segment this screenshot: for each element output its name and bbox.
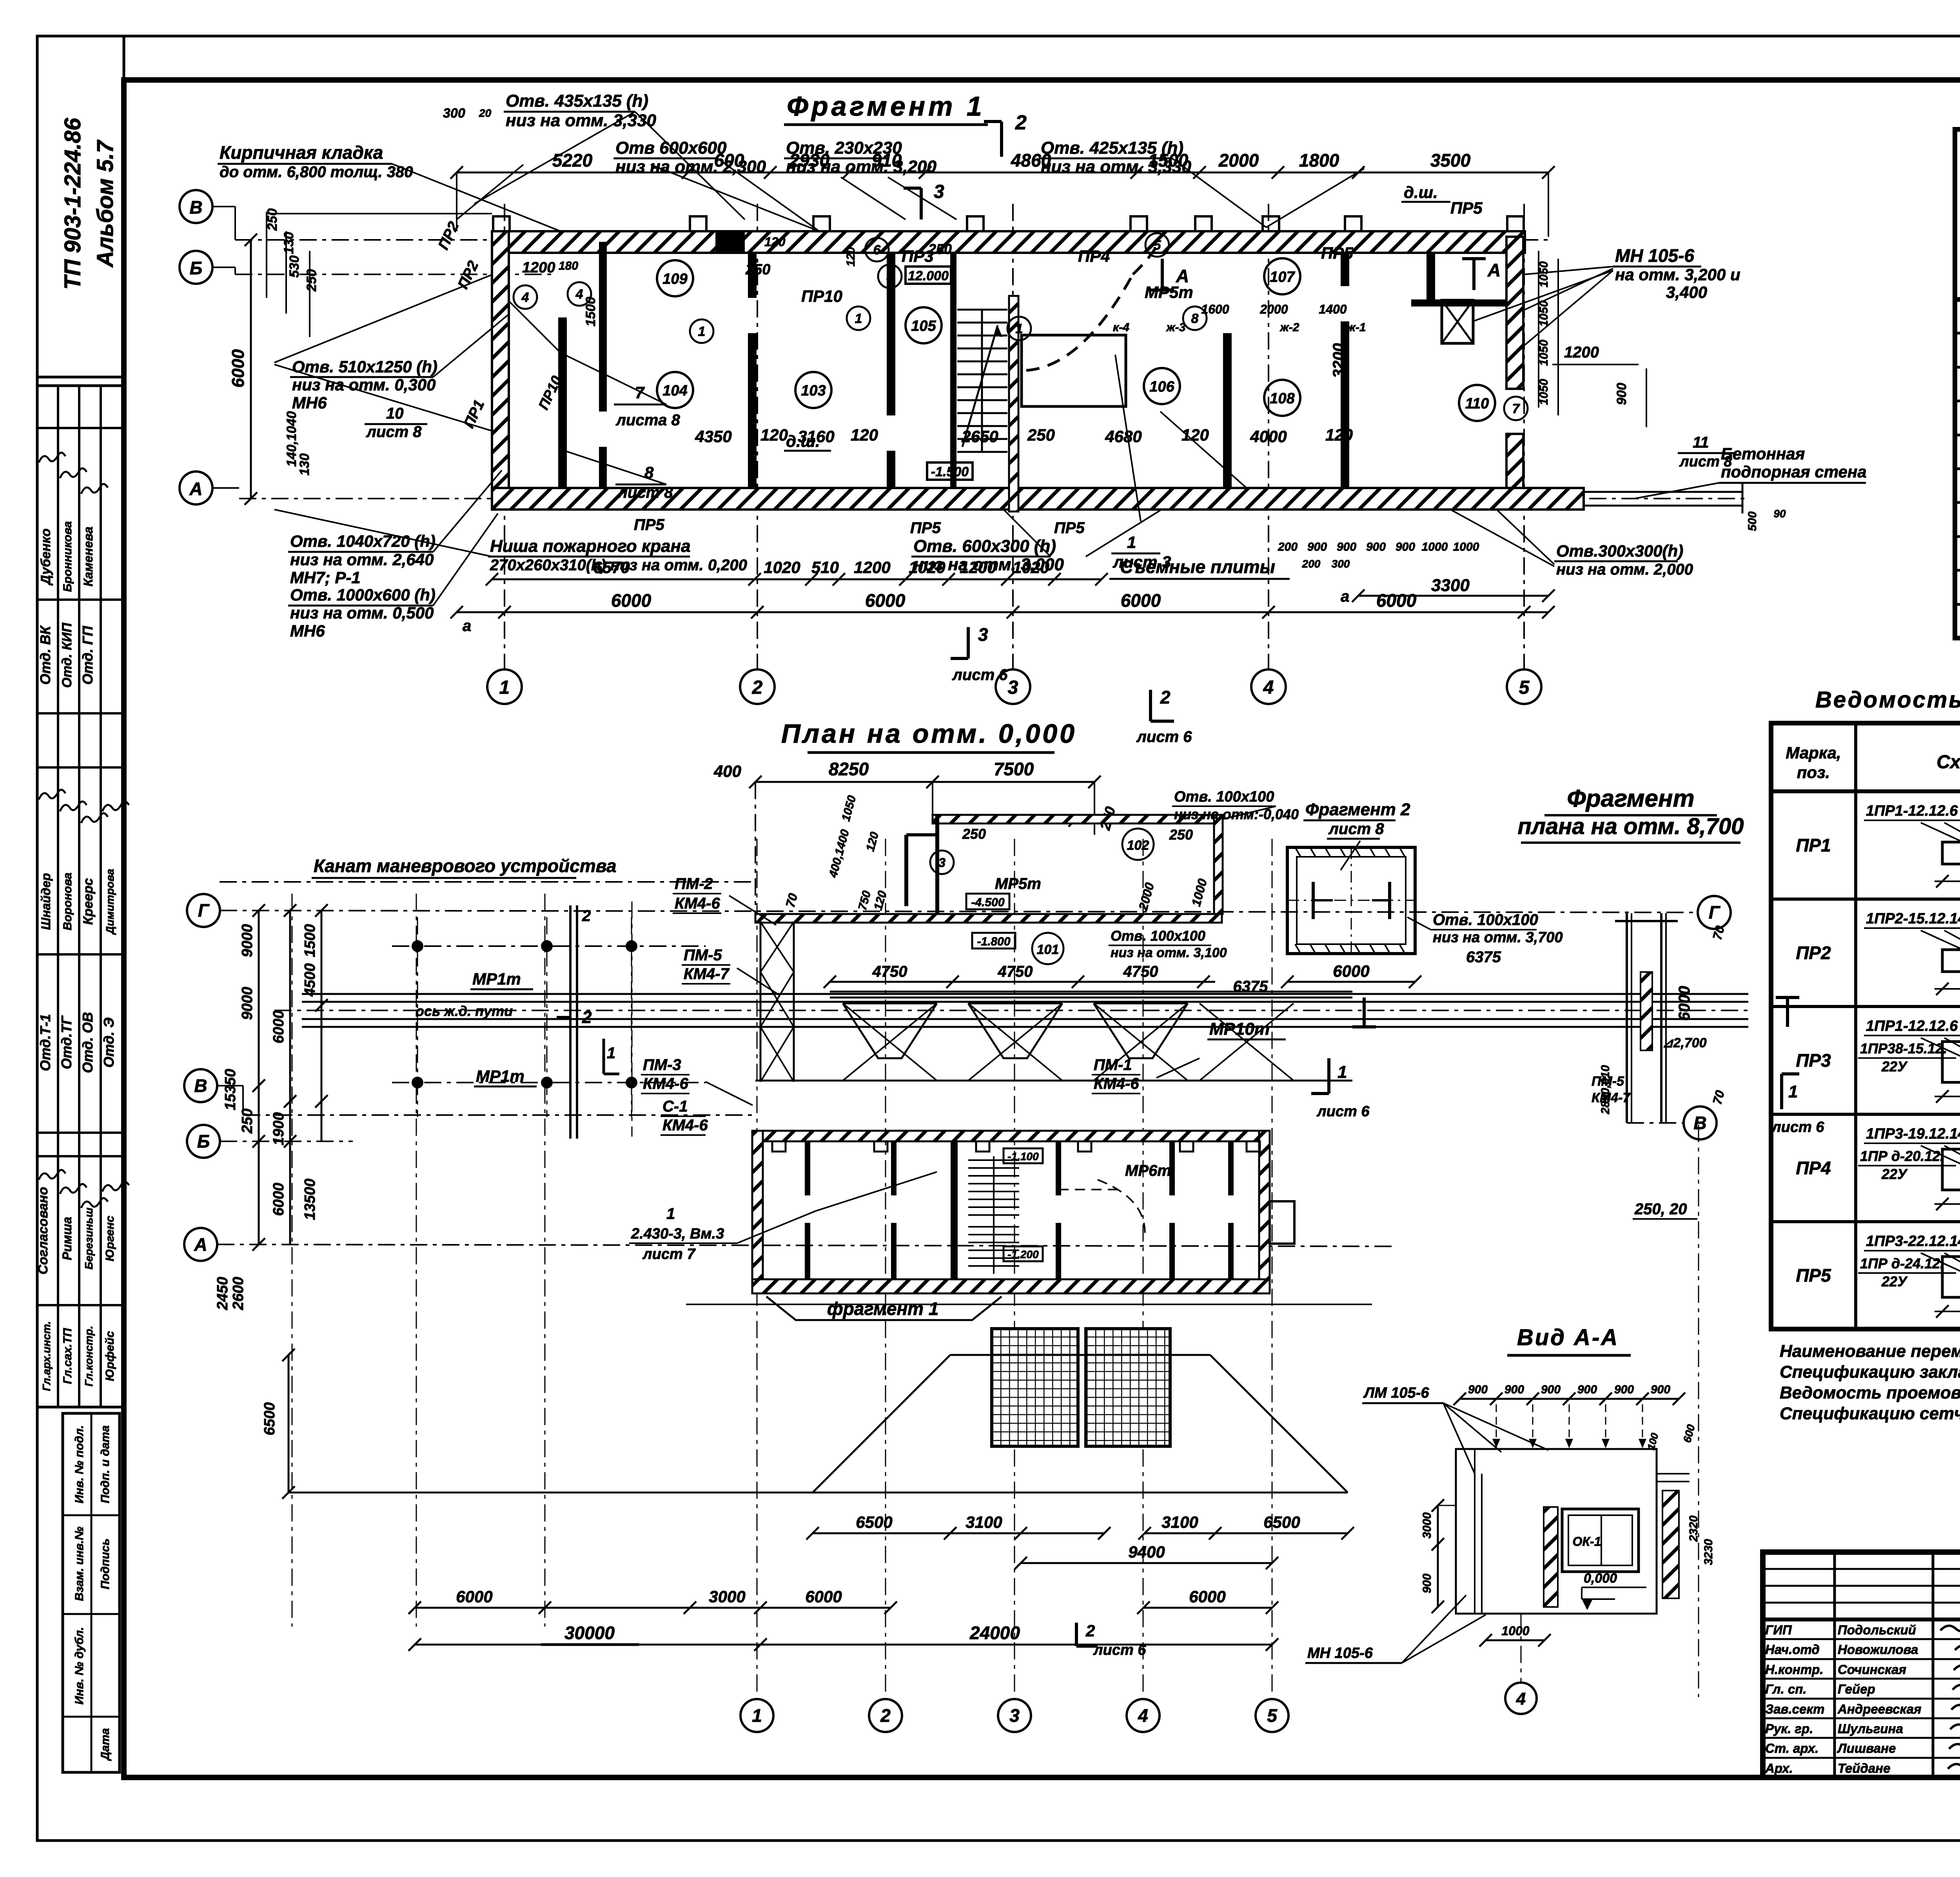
- svg-text:ж-3: ж-3: [1166, 321, 1186, 334]
- svg-text:Марка,: Марка,: [1786, 744, 1841, 762]
- svg-text:3: 3: [934, 181, 944, 202]
- svg-text:Рук. гр.: Рук. гр.: [1765, 1721, 1813, 1736]
- svg-text:4500: 4500: [302, 963, 318, 997]
- svg-text:250: 250: [745, 261, 770, 278]
- svg-text:1ПР3-22.12.14: 1ПР3-22.12.14: [1866, 1233, 1960, 1250]
- svg-text:Зав.сект: Зав.сект: [1765, 1702, 1824, 1716]
- svg-text:4: 4: [1138, 1705, 1148, 1726]
- svg-text:Отд. ВК: Отд. ВК: [37, 625, 53, 685]
- svg-text:1200: 1200: [522, 259, 555, 276]
- svg-text:900: 900: [1421, 1574, 1434, 1593]
- svg-text:ЛМ 105-6: ЛМ 105-6: [1363, 1385, 1429, 1401]
- svg-text:Шнайдер: Шнайдер: [39, 873, 53, 930]
- svg-text:400: 400: [713, 762, 741, 780]
- svg-text:3: 3: [1008, 677, 1018, 698]
- explication table: [1955, 129, 1960, 640]
- svg-text:1200: 1200: [854, 558, 890, 577]
- svg-text:1: 1: [752, 1705, 762, 1726]
- svg-text:6000: 6000: [1333, 962, 1369, 980]
- svg-text:Отд.Т-1: Отд.Т-1: [37, 1014, 53, 1071]
- winch labels ПМ-2 etc: [604, 875, 1200, 1135]
- svg-text:2: 2: [582, 1008, 592, 1027]
- svg-text:Отв 600х600: Отв 600х600: [615, 138, 727, 158]
- svg-text:250: 250: [1027, 426, 1055, 444]
- svg-text:Отв. 435х135 (h): Отв. 435х135 (h): [506, 91, 648, 111]
- section mark 2 top: [984, 111, 1027, 157]
- svg-text:4350: 4350: [695, 427, 731, 446]
- svg-text:1: 1: [666, 1205, 675, 1222]
- svg-text:низ на отм. 3,330: низ на отм. 3,330: [1041, 157, 1191, 176]
- svg-text:2: 2: [582, 907, 591, 925]
- plan axis letter circles left: [184, 894, 220, 1261]
- svg-text:Фрагмент 1: Фрагмент 1: [787, 91, 985, 122]
- svg-text:2890,910: 2890,910: [1599, 1065, 1612, 1114]
- svg-text:низ на отм:-0,040: низ на отм:-0,040: [1174, 806, 1299, 822]
- plan axis В line: [217, 1086, 757, 1115]
- svg-text:поз.: поз.: [1797, 763, 1830, 782]
- svg-text:7500: 7500: [994, 759, 1034, 779]
- svg-text:низ на отм. 2,000: низ на отм. 2,000: [1556, 561, 1693, 578]
- lower building pilasters: [772, 1141, 1260, 1152]
- svg-text:ПР4: ПР4: [1796, 1158, 1831, 1178]
- svg-text:110: 110: [1465, 395, 1489, 412]
- svg-text:МР5т: МР5т: [995, 875, 1041, 892]
- svg-text:Шульгина: Шульгина: [1838, 1721, 1903, 1736]
- svg-text:на отм. 3,200 и: на отм. 3,200 и: [1615, 265, 1740, 284]
- svg-text:1600: 1600: [1201, 302, 1229, 316]
- svg-text:1500: 1500: [302, 924, 318, 958]
- svg-text:2320: 2320: [1687, 1515, 1700, 1542]
- svg-text:А: А: [1176, 266, 1189, 286]
- svg-text:104: 104: [662, 383, 687, 399]
- svg-text:180: 180: [559, 259, 578, 272]
- svg-text:8250: 8250: [829, 759, 869, 779]
- top wall hatched band: [492, 231, 1525, 253]
- svg-text:лист 6: лист 6: [1771, 1119, 1824, 1135]
- plan left vertical dims: [214, 904, 328, 1435]
- svg-text:В: В: [1693, 1113, 1706, 1133]
- svg-text:⊿2,700: ⊿2,700: [1662, 1036, 1707, 1050]
- svg-text:Тейдане: Тейдане: [1838, 1761, 1890, 1775]
- rail lines: [274, 970, 1748, 1086]
- svg-text:ПР5: ПР5: [1450, 199, 1483, 217]
- svg-text:1: 1: [607, 1045, 615, 1062]
- section flag 2 bottom plan: [1076, 1621, 1146, 1658]
- svg-text:Б: Б: [190, 258, 203, 278]
- plan axis Б line: [220, 1141, 353, 1142]
- svg-text:11: 11: [1693, 434, 1709, 451]
- svg-text:2000: 2000: [1218, 150, 1259, 170]
- plan axis А line: [217, 1244, 1396, 1246]
- conveyor trusses with funnels: [755, 963, 1352, 1081]
- svg-text:900: 900: [1337, 540, 1356, 553]
- svg-text:Ведомость проемов ворот и двер: Ведомость проемов ворот и дверей см. лис…: [1780, 1383, 1960, 1402]
- hopper top wall: [933, 815, 1223, 823]
- svg-text:лист 8: лист 8: [366, 423, 422, 441]
- svg-text:6: 6: [873, 243, 881, 258]
- svg-text:250: 250: [928, 241, 952, 257]
- svg-text:6000: 6000: [1189, 1587, 1225, 1606]
- svg-text:1900: 1900: [270, 1112, 287, 1146]
- fragment 2 box: [1287, 847, 1415, 954]
- left strip signature table: [36, 386, 129, 1407]
- axis column lines 1-5: [505, 204, 1524, 668]
- svg-text:а: а: [1341, 588, 1349, 605]
- svg-text:200: 200: [1278, 540, 1298, 553]
- svg-text:1500: 1500: [583, 297, 598, 326]
- svg-text:5: 5: [1154, 238, 1161, 253]
- svg-text:Бронникова: Бронникова: [61, 521, 74, 592]
- svg-text:6500: 6500: [856, 1513, 892, 1531]
- svg-text:к-4: к-4: [1113, 321, 1129, 334]
- svg-text:2650: 2650: [961, 427, 998, 446]
- right wall lower: [1506, 434, 1523, 497]
- svg-text:4750: 4750: [872, 963, 907, 980]
- svg-text:13500: 13500: [302, 1179, 318, 1220]
- svg-text:900: 900: [1577, 1383, 1597, 1396]
- axis line В: [235, 239, 1548, 241]
- bottom wall hatched band: [492, 488, 1584, 510]
- svg-text:6000: 6000: [456, 1587, 492, 1606]
- svg-text:6000: 6000: [865, 590, 906, 611]
- svg-text:МН6: МН6: [292, 394, 327, 412]
- svg-text:900: 900: [1504, 1383, 1524, 1396]
- svg-text:Отд. ОВ: Отд. ОВ: [80, 1012, 96, 1073]
- svg-text:1200: 1200: [960, 558, 996, 577]
- gallery trapezoid: [282, 1349, 1348, 1499]
- svg-text:МН6: МН6: [290, 622, 325, 640]
- svg-text:4750: 4750: [1123, 963, 1158, 980]
- svg-text:8: 8: [1191, 311, 1199, 326]
- svg-text:Отв. 100х100: Отв. 100х100: [1433, 911, 1538, 929]
- svg-text:Нач.отд: Нач.отд: [1765, 1642, 1820, 1657]
- svg-text:МН 105-6: МН 105-6: [1307, 1645, 1373, 1661]
- section mark 3: [904, 181, 944, 219]
- svg-text:Отв. 100х100: Отв. 100х100: [1174, 789, 1274, 805]
- svg-text:ПМ-5: ПМ-5: [684, 947, 722, 964]
- svg-text:Отв. 510х1250 (h): Отв. 510х1250 (h): [292, 357, 437, 376]
- svg-text:6000: 6000: [611, 590, 652, 611]
- svg-text:900: 900: [1396, 540, 1415, 553]
- svg-text:250: 250: [962, 826, 986, 842]
- lintel ПР3: [1796, 1018, 1960, 1103]
- svg-text:2450: 2450: [214, 1277, 231, 1311]
- svg-text:Отв.300х300(h): Отв.300х300(h): [1556, 542, 1683, 560]
- right side callouts МН 105-6: [1525, 245, 1740, 345]
- plan bottom axis circles: [740, 1699, 1289, 1732]
- svg-text:9400: 9400: [1128, 1543, 1165, 1561]
- rail support columns (dots): [392, 917, 706, 1117]
- svg-text:Бетонная: Бетонная: [1721, 444, 1805, 463]
- dim row under plan: [486, 557, 1555, 605]
- left strip stamp box: [37, 36, 124, 377]
- lower building walls: [752, 1131, 1294, 1293]
- svg-text:Спецификацию сетчатых перегоро: Спецификацию сетчатых перегородок см. ли…: [1780, 1404, 1960, 1423]
- svg-text:1: 1: [1127, 533, 1136, 551]
- notes under tables: [1780, 1342, 1960, 1423]
- svg-text:фрагмент 1: фрагмент 1: [827, 1298, 938, 1319]
- svg-text:9000: 9000: [239, 987, 256, 1020]
- svg-text:Взам. инв.№: Взам. инв.№: [73, 1527, 86, 1601]
- svg-text:Отд. КИП: Отд. КИП: [60, 622, 74, 687]
- svg-text:130: 130: [281, 232, 296, 254]
- svg-text:30000: 30000: [564, 1623, 615, 1643]
- svg-text:низ на отм. 0,500: низ на отм. 0,500: [290, 604, 434, 622]
- svg-text:22У: 22У: [1881, 1059, 1908, 1075]
- svg-text:250, 20: 250, 20: [1634, 1201, 1687, 1218]
- kirpichnaya kladka callout: [218, 142, 561, 231]
- svg-text:КМ4-6: КМ4-6: [1094, 1075, 1139, 1092]
- svg-text:2: 2: [880, 1705, 891, 1726]
- svg-text:130: 130: [297, 453, 312, 476]
- svg-text:ПМ-3: ПМ-3: [643, 1056, 681, 1074]
- svg-text:С-1: С-1: [662, 1098, 688, 1115]
- svg-text:6570: 6570: [593, 558, 630, 577]
- svg-text:Отв. 1040х720 (h): Отв. 1040х720 (h): [290, 532, 436, 550]
- svg-text:ГИП: ГИП: [1765, 1623, 1792, 1637]
- svg-text:4000: 4000: [1250, 427, 1287, 446]
- misc leader lines fragment 1: [274, 112, 1613, 564]
- retaining wall extension right: [1584, 482, 1742, 513]
- svg-text:Гл.сах.ТП: Гл.сах.ТП: [61, 1328, 74, 1384]
- left wall: [492, 231, 509, 510]
- svg-text:-4.500: -4.500: [971, 896, 1004, 909]
- svg-text:Спецификацию закладных элемент: Спецификацию закладных элементов МН105-6…: [1780, 1362, 1960, 1382]
- fragment plana title: [1517, 785, 1744, 843]
- equipment МР5т: [1022, 241, 1193, 521]
- svg-text:А: А: [189, 479, 202, 499]
- svg-text:3230: 3230: [1702, 1539, 1715, 1565]
- svg-text:ПР4: ПР4: [1078, 247, 1110, 265]
- svg-text:1800: 1800: [1299, 150, 1339, 170]
- svg-text:3: 3: [938, 856, 946, 870]
- view A-A title: [1507, 1325, 1631, 1355]
- lower building top wall: [752, 1131, 1270, 1141]
- interior partition walls: [558, 242, 1506, 488]
- left small dims rotated: [265, 209, 492, 476]
- svg-text:3500: 3500: [1430, 150, 1471, 170]
- svg-text:МР6т: МР6т: [1125, 1162, 1171, 1179]
- svg-text:2000: 2000: [1259, 302, 1288, 316]
- svg-text:Инв. № подл.: Инв. № подл.: [73, 1425, 86, 1503]
- svg-text:Подпись: Подпись: [99, 1538, 112, 1589]
- svg-text:500: 500: [1746, 511, 1759, 531]
- lintel ПР4: [1796, 1126, 1960, 1210]
- svg-text:4680: 4680: [1105, 427, 1142, 446]
- svg-text:101: 101: [1037, 942, 1059, 957]
- svg-text:900: 900: [1468, 1383, 1488, 1396]
- svg-text:Б: Б: [197, 1131, 210, 1152]
- svg-text:6500: 6500: [1263, 1513, 1300, 1531]
- staircase: [957, 310, 1007, 452]
- svg-text:6000: 6000: [1676, 986, 1693, 1021]
- svg-text:лист 6: лист 6: [1136, 728, 1192, 745]
- svg-text:3160: 3160: [798, 427, 834, 446]
- svg-text:-1.100: -1.100: [1007, 1150, 1039, 1162]
- svg-text:1020: 1020: [764, 558, 800, 577]
- plan title: [781, 719, 1077, 753]
- svg-text:300: 300: [443, 106, 465, 121]
- svg-text:20: 20: [479, 107, 492, 119]
- svg-text:Наименование перемычек в скобк: Наименование перемычек в скобках дано дл…: [1780, 1342, 1960, 1361]
- svg-text:МР1т: МР1т: [472, 970, 521, 988]
- svg-text:15350: 15350: [222, 1069, 239, 1110]
- svg-text:4750: 4750: [998, 963, 1033, 980]
- svg-text:Канат маневрового устройства: Канат маневрового устройства: [314, 856, 617, 876]
- svg-text:ТП 903-1-224.86: ТП 903-1-224.86: [60, 118, 85, 290]
- svg-text:0,000: 0,000: [1584, 1571, 1617, 1586]
- svg-text:2: 2: [1160, 687, 1171, 707]
- svg-text:6000: 6000: [1376, 590, 1417, 611]
- svg-text:250: 250: [239, 1108, 256, 1133]
- svg-text:900: 900: [1307, 540, 1327, 553]
- svg-text:Отд. Э: Отд. Э: [101, 1017, 117, 1068]
- svg-text:2: 2: [1015, 111, 1027, 134]
- svg-text:1: 1: [499, 677, 510, 698]
- svg-text:КМ4-6: КМ4-6: [675, 895, 720, 912]
- braced tower: [760, 922, 794, 1082]
- svg-text:В: В: [194, 1075, 207, 1096]
- svg-text:лист 6: лист 6: [1093, 1642, 1146, 1658]
- svg-text:низ на отм. 2,300: низ на отм. 2,300: [615, 157, 766, 176]
- svg-text:9: 9: [886, 269, 894, 284]
- section mark 2 bottom: [1136, 687, 1192, 745]
- svg-text:120: 120: [1325, 426, 1353, 444]
- svg-text:ПР5: ПР5: [1054, 519, 1085, 537]
- section flags 1 list 6: [1311, 997, 1824, 1135]
- svg-text:9000: 9000: [239, 924, 256, 958]
- room number circles: [657, 258, 1495, 421]
- lintel ПР2: [1796, 910, 1960, 995]
- svg-text:1400: 1400: [1319, 302, 1347, 316]
- svg-text:3300: 3300: [1431, 576, 1470, 595]
- svg-text:10: 10: [386, 405, 404, 422]
- interior dim texts: [695, 235, 1366, 446]
- svg-text:3,400: 3,400: [1666, 283, 1707, 301]
- svg-text:4: 4: [1516, 1689, 1526, 1708]
- svg-text:низ на отм. 2,640: низ на отм. 2,640: [290, 550, 434, 569]
- svg-text:3100: 3100: [1161, 1513, 1198, 1531]
- svg-text:лист 8: лист 8: [1328, 820, 1384, 838]
- svg-text:Съемные плиты: Съемные плиты: [1120, 557, 1275, 577]
- svg-text:1020: 1020: [909, 558, 945, 577]
- svg-text:Димитрова: Димитрова: [104, 869, 116, 935]
- svg-text:Ведомость перемычек: Ведомость перемычек: [1815, 687, 1960, 713]
- svg-text:4: 4: [521, 290, 529, 305]
- svg-text:Отд.ТГ: Отд.ТГ: [58, 1015, 74, 1069]
- svg-text:3000: 3000: [709, 1587, 745, 1606]
- svg-text:1ПР38-15.12.: 1ПР38-15.12.: [1860, 1041, 1947, 1057]
- callout 2430 list 7: [629, 1172, 937, 1262]
- svg-text:510: 510: [811, 558, 839, 577]
- svg-text:Г: Г: [1709, 902, 1720, 923]
- hopper inner partition: [906, 835, 937, 906]
- top wall pilasters: [493, 216, 1524, 231]
- svg-text:3100: 3100: [965, 1513, 1002, 1531]
- svg-text:Каменева: Каменева: [81, 527, 95, 587]
- svg-text:120: 120: [844, 247, 857, 267]
- svg-text:Лишване: Лишване: [1837, 1741, 1896, 1755]
- Otv 100x100 right: [1407, 911, 1563, 966]
- svg-text:Отд. ГП: Отд. ГП: [80, 626, 96, 685]
- svg-text:900: 900: [1614, 1383, 1634, 1396]
- svg-text:Новожилова: Новожилова: [1838, 1642, 1918, 1657]
- svg-text:1: 1: [1788, 1082, 1798, 1101]
- svg-text:530: 530: [287, 256, 302, 278]
- svg-text:Согласовано: Согласовано: [36, 1187, 51, 1275]
- svg-text:Ст. арх.: Ст. арх.: [1765, 1741, 1818, 1755]
- svg-text:900: 900: [1651, 1383, 1670, 1396]
- svg-text:24000: 24000: [969, 1623, 1020, 1643]
- title block signatures: [1765, 1622, 1960, 1775]
- svg-text:3200: 3200: [1330, 343, 1347, 378]
- svg-text:1: 1: [1338, 1063, 1347, 1082]
- svg-text:90: 90: [1773, 508, 1786, 520]
- lower building stairs: [968, 1156, 1019, 1274]
- svg-text:3000: 3000: [1421, 1512, 1434, 1538]
- crosshatched plates: [992, 1329, 1170, 1446]
- vedomost table left: [1771, 723, 1960, 1329]
- svg-text:ПР1: ПР1: [1796, 835, 1831, 856]
- svg-text:-1.800: -1.800: [977, 935, 1010, 948]
- left strip lower table (inv no): [63, 1413, 120, 1772]
- small detail circles: [514, 233, 1528, 420]
- svg-text:ПМ-2: ПМ-2: [675, 875, 713, 892]
- svg-text:1ПР1-12.12.6: 1ПР1-12.12.6: [1866, 1018, 1958, 1034]
- svg-text:Римша: Римша: [60, 1217, 74, 1260]
- svg-text:22У: 22У: [1881, 1166, 1908, 1182]
- svg-text:900: 900: [1541, 1383, 1561, 1396]
- top dimension line: [450, 150, 1555, 237]
- svg-text:КМ4-7: КМ4-7: [684, 965, 730, 983]
- top callout texts: [443, 91, 1266, 231]
- fragment 2 dim 6000: [1281, 962, 1421, 988]
- svg-text:2: 2: [1085, 1621, 1095, 1640]
- svg-text:а: а: [463, 617, 471, 635]
- svg-text:А: А: [194, 1234, 207, 1255]
- svg-text:Подп. и дата: Подп. и дата: [99, 1425, 112, 1503]
- svg-text:КМ4-6: КМ4-6: [643, 1075, 688, 1092]
- svg-text:107: 107: [1270, 269, 1295, 285]
- svg-text:3: 3: [978, 624, 988, 645]
- svg-text:ПР10: ПР10: [801, 287, 842, 305]
- svg-text:2.430-3, Вм.3: 2.430-3, Вм.3: [631, 1226, 724, 1242]
- svg-text:Воронова: Воронова: [61, 872, 74, 930]
- plan axis Г line: [220, 910, 1698, 912]
- svg-text:Отв. 425х135 (h): Отв. 425х135 (h): [1041, 138, 1183, 158]
- svg-text:Вид А-А: Вид А-А: [1517, 1325, 1619, 1350]
- hopper right wall: [1214, 815, 1223, 914]
- svg-text:План на отм. 0,000: План на отм. 0,000: [781, 719, 1077, 749]
- svg-text:5: 5: [1519, 677, 1530, 698]
- svg-text:6000: 6000: [805, 1587, 842, 1606]
- svg-text:ПР5: ПР5: [1321, 244, 1353, 262]
- hopper bottom wall: [755, 914, 1222, 923]
- svg-text:Дубенко: Дубенко: [38, 528, 53, 586]
- title block frame: [1763, 1552, 1960, 1777]
- svg-text:Креерс: Креерс: [81, 878, 96, 925]
- svg-text:-1.500: -1.500: [931, 464, 969, 479]
- svg-text:МН7; Р-1: МН7; Р-1: [290, 568, 361, 587]
- stair shaft hatched wall: [1009, 296, 1018, 511]
- svg-text:1: 1: [855, 311, 862, 326]
- svg-text:КМ4-7: КМ4-7: [1592, 1090, 1631, 1105]
- svg-text:Гл.констр.: Гл.констр.: [83, 1326, 95, 1387]
- svg-text:103: 103: [801, 383, 826, 399]
- svg-text:109: 109: [662, 271, 687, 287]
- svg-text:А: А: [1487, 260, 1501, 280]
- svg-text:1000: 1000: [1422, 540, 1448, 553]
